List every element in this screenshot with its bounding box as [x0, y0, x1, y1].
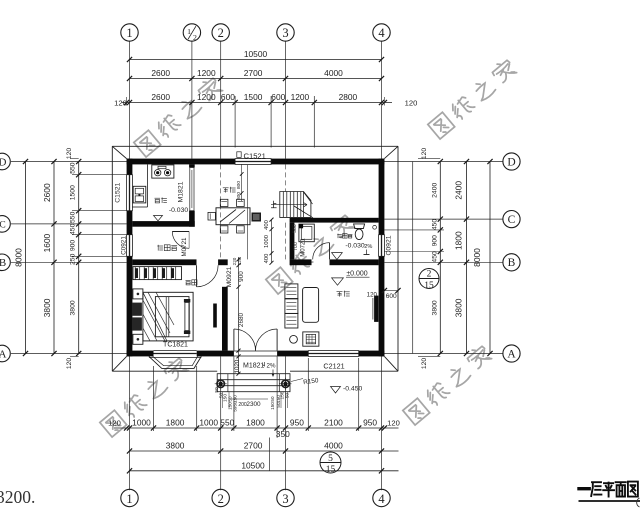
svg-text:3: 3	[282, 26, 288, 40]
bed duvet hatch	[143, 292, 174, 341]
bathroom floor drain	[373, 225, 377, 229]
svg-text:900: 900	[431, 235, 438, 247]
chimney duct	[252, 213, 262, 222]
svg-text:1600: 1600	[42, 233, 52, 252]
svg-text:M1821: M1821	[177, 181, 184, 202]
right dimension rooms	[466, 162, 468, 354]
svg-text:2%: 2%	[267, 362, 276, 369]
svg-text:A: A	[0, 348, 7, 360]
axis bubble A left	[0, 345, 10, 362]
svg-text:120: 120	[108, 419, 121, 428]
svg-text:700: 700	[293, 242, 299, 251]
axis line D right	[384, 161, 503, 163]
svg-text:950: 950	[290, 418, 304, 428]
axis line 3 inside plan	[285, 164, 287, 191]
svg-text:5950: 5950	[233, 401, 238, 412]
svg-text:450: 450	[70, 223, 77, 235]
svg-text:900: 900	[70, 240, 77, 252]
bottom right paren fragment	[637, 498, 640, 507]
axis line 4 bottom	[381, 356, 383, 490]
stairs up arrow	[271, 204, 307, 206]
bedroom wardrobe	[133, 267, 182, 280]
axis bubble 1 top	[121, 24, 138, 41]
svg-text:1200: 1200	[197, 68, 216, 78]
svg-text:D: D	[507, 156, 515, 168]
svg-text:2700: 2700	[244, 441, 263, 451]
porch door jamb lines	[233, 356, 235, 391]
axis bubble 3 top	[277, 24, 294, 41]
window C1521 left	[127, 175, 133, 211]
svg-text:5: 5	[328, 454, 333, 464]
bedroom door M0921 leaf	[196, 265, 198, 287]
left wall segment 3	[127, 256, 133, 356]
left dimension detail	[78, 162, 80, 354]
svg-text:150: 150	[223, 394, 229, 402]
living room coffee table	[303, 288, 319, 323]
svg-text:3800: 3800	[42, 298, 52, 317]
svg-text:600: 600	[221, 92, 235, 102]
axis bubble A right	[503, 345, 520, 362]
bay window TC1821	[149, 356, 201, 368]
svg-text:2: 2	[218, 26, 224, 40]
svg-text:B: B	[0, 257, 6, 269]
storage door M0721 leaf and arc	[172, 231, 189, 233]
left wall segment 1	[127, 159, 133, 175]
svg-text:120: 120	[387, 419, 400, 428]
svg-text:8000: 8000	[472, 248, 482, 267]
axis line 3 bottom	[285, 356, 287, 490]
bathroom washbasin	[299, 224, 314, 242]
top wall left segment	[127, 159, 236, 165]
svg-text:-0.030: -0.030	[345, 243, 364, 250]
svg-text:3800: 3800	[431, 300, 438, 315]
svg-text:B: B	[508, 257, 516, 269]
watermark bottom-left	[99, 355, 191, 437]
bottom wall segment 4	[359, 351, 385, 357]
detail bubble 5/15	[320, 452, 341, 473]
extension lines top row3	[234, 96, 236, 148]
svg-text:1800: 1800	[454, 231, 464, 250]
bedroom right wall	[222, 287, 228, 351]
axis line 1 bottom	[129, 356, 131, 490]
left dimension total 8000	[25, 162, 27, 354]
svg-text:10500: 10500	[244, 49, 268, 59]
bathroom toilet	[354, 224, 365, 229]
right dimension detail	[439, 162, 441, 354]
right window extension lines	[384, 229, 444, 231]
svg-text:600: 600	[271, 92, 285, 102]
axis bubble c left	[0, 216, 10, 233]
kitchen room label	[155, 198, 161, 203]
axis line 2 vertical	[220, 41, 222, 159]
bottom dimension row2	[130, 450, 399, 452]
svg-text:2%: 2%	[364, 244, 372, 250]
living room label	[337, 292, 343, 297]
svg-text:2800: 2800	[339, 92, 358, 102]
svg-text:C0921: C0921	[386, 235, 393, 255]
entrance double door arcs	[234, 329, 256, 351]
top dimension line 10500	[130, 59, 382, 61]
svg-text:1500: 1500	[70, 185, 77, 200]
svg-text:M1821: M1821	[243, 362, 265, 369]
living room sofa	[285, 284, 298, 299]
svg-text:1800: 1800	[166, 418, 185, 428]
bathroom bottom wall B row	[290, 259, 312, 265]
svg-text:400: 400	[264, 254, 270, 264]
axis line B left	[11, 261, 127, 263]
svg-text:800: 800	[236, 192, 242, 200]
svg-text:120: 120	[405, 98, 418, 107]
bottom wall segment 1	[127, 351, 154, 357]
entrance threshold lines	[234, 350, 277, 352]
axis bubble 2 top	[212, 24, 229, 41]
bedroom door M0921 arc	[197, 265, 219, 287]
svg-text:2: 2	[218, 492, 224, 506]
svg-text:3800: 3800	[166, 441, 185, 451]
svg-text:950: 950	[363, 418, 377, 428]
bottom wall segment 3	[277, 351, 308, 357]
kitchen-dining wall lower	[189, 211, 195, 227]
svg-text:2600: 2600	[42, 183, 52, 202]
svg-text:2300: 2300	[246, 401, 261, 408]
storage room label	[157, 245, 163, 251]
bathroom door leaf and arc	[329, 243, 331, 260]
kitchen-dining wall upper	[189, 164, 195, 167]
svg-text:50: 50	[214, 387, 220, 393]
porch R150 note	[291, 379, 303, 382]
inner dim line x238	[238, 257, 240, 374]
axis line B right	[384, 261, 503, 263]
axis bubble 4 top	[373, 24, 390, 41]
axis line C right	[384, 218, 503, 220]
living room stool	[290, 335, 298, 343]
axis bubble 2 bottom	[212, 489, 229, 506]
storage door M0721 opening	[188, 232, 190, 249]
svg-text:900: 900	[238, 271, 245, 282]
bottom dimension row1	[114, 427, 399, 429]
svg-text:1000: 1000	[132, 418, 151, 428]
svg-text:2400: 2400	[454, 181, 464, 200]
living room TV	[374, 296, 378, 322]
axis bubble B left	[0, 254, 10, 271]
svg-text:M0721: M0721	[301, 238, 307, 257]
bed pillows	[132, 303, 142, 316]
svg-text:1000: 1000	[199, 418, 218, 428]
porch column right	[282, 380, 289, 387]
svg-text:600: 600	[386, 293, 397, 300]
bed nightstand bottom	[133, 334, 143, 344]
svg-text:1000: 1000	[264, 235, 270, 248]
storage-bedroom wall B row	[132, 259, 196, 265]
svg-text:120: 120	[66, 358, 73, 370]
window C1521 top	[235, 159, 271, 165]
svg-text:15: 15	[326, 465, 336, 475]
porch steps	[217, 374, 290, 392]
axis line 4 vertical	[381, 41, 383, 159]
svg-text:4: 4	[378, 26, 385, 40]
svg-text:3: 3	[282, 492, 288, 506]
svg-text:2680: 2680	[238, 312, 245, 327]
svg-text:2100: 2100	[324, 418, 343, 428]
axis bubble C right	[503, 211, 520, 228]
stairs up glyph	[271, 201, 277, 208]
axis bubble D right	[503, 153, 520, 170]
axis bubble 4 bottom	[373, 489, 390, 506]
bottom dimension row3	[130, 470, 399, 472]
svg-text:8000: 8000	[14, 248, 24, 267]
axis bubble B right	[503, 254, 520, 271]
bedroom TV	[213, 304, 217, 328]
svg-text:550: 550	[70, 211, 77, 223]
svg-text:2: 2	[193, 33, 197, 42]
detail bubble 2/15	[419, 269, 439, 289]
porch column left	[217, 380, 224, 387]
svg-text:2400: 2400	[431, 183, 438, 198]
title first floor plan	[579, 482, 638, 497]
watermark top-center	[133, 75, 225, 157]
roof corner diagonals	[112, 146, 126, 158]
inner dim line bathroom x271.5	[271, 220, 273, 263]
svg-text:2: 2	[427, 270, 432, 280]
kitchen stove	[152, 165, 174, 178]
svg-text:580: 580	[292, 224, 298, 233]
svg-text:-0.030: -0.030	[169, 207, 188, 214]
detail bubble 5/15 leader	[269, 438, 271, 471]
bed inner rect	[155, 297, 189, 337]
window C0921 left	[127, 235, 133, 257]
svg-text:350: 350	[276, 429, 290, 439]
watermark top-right	[427, 57, 519, 139]
axis bubble D left	[0, 153, 10, 170]
right wall segment 2	[379, 256, 385, 356]
bathroom left wall	[290, 223, 295, 260]
svg-text:TC1821: TC1821	[163, 342, 188, 349]
svg-text:120: 120	[66, 148, 73, 160]
axis bubble 3 bottom	[277, 489, 294, 506]
roof eave outline	[112, 145, 398, 147]
axis line 1/2 vertical	[191, 41, 193, 159]
svg-text:2600: 2600	[151, 68, 170, 78]
svg-text:D: D	[0, 156, 7, 168]
svg-text:C1521: C1521	[115, 182, 122, 202]
axis line 1 vertical	[129, 41, 131, 159]
svg-text:A: A	[507, 348, 516, 360]
svg-text:3800: 3800	[70, 300, 77, 315]
svg-text:800: 800	[236, 181, 242, 189]
window C1521 top label	[237, 152, 241, 158]
bed foot bench	[184, 299, 190, 302]
right dimension total 8000	[489, 162, 491, 354]
axis line A right	[384, 353, 503, 355]
axis line D left	[11, 161, 127, 163]
axis bubble 1/2 top	[183, 24, 200, 41]
right wall segment 1	[379, 159, 385, 235]
kitchen sink	[133, 186, 146, 203]
living room TV cabinet	[303, 332, 319, 346]
svg-text:50: 50	[270, 396, 275, 402]
svg-text:C2121: C2121	[323, 362, 344, 371]
top wall right segment	[271, 159, 384, 165]
stairs break line	[294, 206, 313, 218]
dining chairs	[220, 199, 228, 206]
top dimension line row2	[130, 78, 382, 80]
svg-text:C: C	[508, 214, 516, 226]
axis line c left	[11, 223, 127, 225]
svg-text:1200: 1200	[197, 92, 216, 102]
svg-text:120: 120	[114, 98, 127, 107]
svg-text:120: 120	[237, 257, 242, 265]
title underline	[579, 500, 640, 502]
left dimension rooms	[53, 162, 55, 354]
svg-text:M0721: M0721	[181, 237, 188, 256]
dining dim line 800s	[241, 164, 243, 201]
svg-text:250: 250	[70, 253, 77, 265]
svg-text:±0.000: ±0.000	[346, 271, 367, 278]
porch step dim ticks	[222, 392, 224, 408]
axis line 2 inside plan	[220, 164, 222, 259]
svg-text:550: 550	[220, 418, 234, 428]
axis bubble 1 bottom	[121, 489, 138, 506]
svg-text:3800: 3800	[454, 298, 464, 317]
window C0921 right	[379, 235, 385, 257]
porch dim 2300	[231, 398, 268, 400]
porch level -0.450	[331, 387, 341, 394]
svg-text:C0921: C0921	[120, 236, 127, 255]
svg-text:10500: 10500	[241, 460, 265, 470]
entrance double door M1821 leaves	[233, 329, 235, 351]
window C2121 bottom	[308, 351, 358, 357]
svg-text:1800: 1800	[246, 418, 265, 428]
svg-text:1: 1	[126, 26, 132, 40]
svg-text:1: 1	[126, 492, 132, 506]
svg-text:4000: 4000	[324, 68, 343, 78]
svg-text:C: C	[0, 221, 6, 231]
svg-text:3200.: 3200.	[0, 487, 35, 507]
svg-text:150: 150	[270, 402, 275, 410]
svg-text:15: 15	[424, 281, 434, 291]
bathroom room label	[337, 234, 342, 239]
axis line 3 vertical	[285, 41, 287, 159]
axis line A left	[11, 353, 127, 355]
svg-text:2700: 2700	[244, 68, 263, 78]
bedroom label	[186, 281, 191, 285]
svg-text:-0.450: -0.450	[343, 385, 362, 392]
svg-text:4000: 4000	[324, 441, 343, 451]
stairs	[280, 192, 311, 218]
svg-text:120: 120	[421, 148, 428, 160]
svg-text:M0921: M0921	[226, 266, 233, 287]
kitchen counter	[147, 164, 149, 207]
bottom wall segment 2	[197, 351, 234, 357]
axis line 2 bottom	[220, 356, 222, 490]
dining table	[216, 208, 250, 225]
svg-text:4: 4	[378, 492, 385, 506]
svg-text:200: 200	[238, 402, 247, 408]
svg-text:120: 120	[421, 358, 428, 370]
watermark center	[265, 212, 357, 294]
extension lines bottom row1	[153, 366, 155, 431]
svg-text:1020: 1020	[234, 359, 241, 373]
kitchen-storage wall	[132, 221, 194, 227]
dining room label	[223, 188, 229, 193]
svg-text:2600: 2600	[151, 92, 170, 102]
bed nightstand top	[133, 289, 143, 299]
kitchen sliding door M1821 track	[190, 168, 194, 211]
svg-text:50: 50	[276, 402, 281, 408]
bed outline	[143, 292, 193, 341]
svg-text:1500: 1500	[244, 92, 263, 102]
svg-text:450: 450	[431, 251, 438, 263]
bathroom top wall	[290, 218, 379, 223]
left wall segment 2	[127, 211, 133, 235]
svg-text:1200: 1200	[291, 92, 310, 102]
left window extension lines	[72, 174, 127, 176]
top dimension line row3	[122, 102, 392, 104]
svg-text:450: 450	[431, 219, 438, 231]
svg-text:C1521: C1521	[244, 151, 266, 160]
svg-text:400: 400	[264, 220, 270, 230]
svg-text:550: 550	[70, 162, 77, 174]
svg-text:120: 120	[367, 291, 378, 298]
watermark bottom-right	[402, 343, 494, 425]
